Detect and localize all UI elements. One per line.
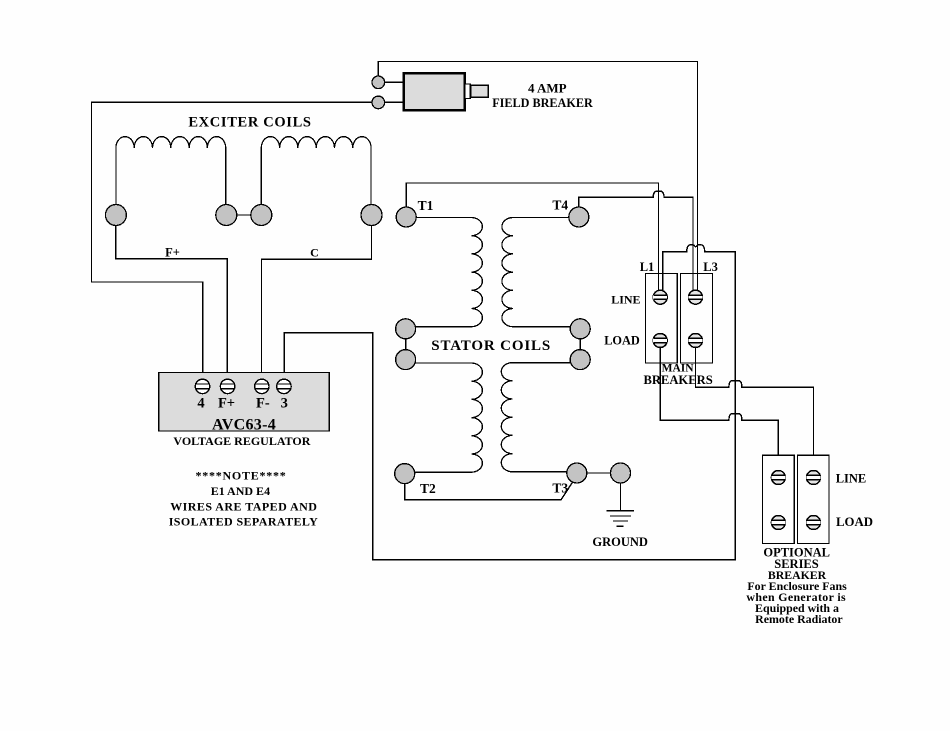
svg-text:C: C (310, 245, 319, 259)
label C (310, 245, 319, 259)
4 amp field breaker body (404, 73, 465, 110)
field breaker upper terminal (372, 76, 385, 89)
optional breaker line-left terminal (771, 471, 785, 485)
svg-text:F-: F- (256, 395, 270, 411)
field breaker connector stub (465, 84, 471, 99)
wire pair into L3 line terminal (693, 274, 698, 291)
label 4 AMP FIELD BREAKER (492, 80, 593, 110)
stator coil top-left (406, 218, 482, 327)
label LOAD (main) (604, 333, 640, 347)
exciter terminal 1 (105, 205, 126, 226)
stator coil bottom-right (501, 363, 579, 472)
stator mid-right lower terminal (570, 350, 590, 370)
regulator terminal 4 (195, 379, 209, 393)
regulator terminal 3 (277, 379, 291, 393)
svg-text:STATOR COILS: STATOR COILS (431, 338, 551, 354)
T1 wire (stator T1 to L1 line) (406, 183, 658, 291)
regulator terminal F- (255, 379, 269, 393)
stator mid-right upper terminal (570, 319, 590, 339)
wire T3 to ground terminal (577, 472, 621, 474)
field breaker button (471, 85, 489, 97)
svg-text:T3: T3 (552, 481, 568, 496)
optional breaker line-right terminal (807, 471, 821, 485)
svg-text:VOLTAGE REGULATOR: VOLTAGE REGULATOR (173, 434, 310, 448)
regulator terminal F+ (220, 379, 234, 393)
wire pair into L1 line terminal (659, 274, 663, 291)
main breaker right cell (681, 274, 713, 364)
main breaker L1 load terminal (653, 334, 667, 348)
wire field breaker top to L3 line terminal (378, 62, 697, 292)
svg-text:WIRES ARE TAPED AND: WIRES ARE TAPED AND (170, 499, 317, 513)
label MAIN (662, 363, 695, 375)
optional breaker caption (763, 546, 830, 583)
optional breaker load-left terminal (771, 516, 785, 530)
sense wire regulator terminal 3 to L1 line (284, 245, 735, 560)
svg-text:4: 4 (197, 395, 204, 411)
label GROUND (592, 535, 648, 549)
wire field breaker bottom to regulator terminal 4 (92, 102, 379, 380)
stator terminal T4 (569, 207, 589, 227)
wire T2 to T3 (405, 478, 574, 500)
svg-text:Remote Radiator: Remote Radiator (755, 612, 843, 626)
label BREAKERS (643, 373, 712, 387)
L1 load wire to optional breaker (660, 346, 778, 471)
L3 load wire to optional breaker (696, 346, 814, 471)
svg-text:LOAD: LOAD (604, 333, 640, 347)
svg-text:T4: T4 (552, 197, 568, 212)
optional breaker load-right terminal (807, 516, 821, 530)
ground symbol (607, 483, 635, 526)
svg-text:3: 3 (281, 395, 288, 411)
svg-text:BREAKERS: BREAKERS (643, 373, 712, 387)
wire stator mid-left pair connector (405, 329, 407, 360)
main breaker L3 line terminal (689, 290, 703, 304)
label LINE (main) (611, 292, 640, 306)
exciter coil 2 (right) (261, 137, 371, 215)
svg-text:EXCITER COILS: EXCITER COILS (188, 115, 311, 131)
voltage regulator box AVC63-4 (159, 373, 329, 431)
svg-text:T1: T1 (418, 198, 434, 213)
label STATOR COILS (431, 338, 551, 354)
wire breaker upper terminal to body (378, 81, 403, 83)
wire exciter middle connector (226, 214, 261, 216)
label AVC63-4 (212, 416, 276, 433)
stator terminal T1 (396, 207, 416, 227)
svg-text:4 AMP: 4 AMP (528, 80, 567, 95)
main breaker L3 load terminal (689, 334, 703, 348)
stator terminal T2 (395, 464, 415, 484)
svg-text:LOAD: LOAD (836, 515, 873, 529)
label VOLTAGE REGULATOR (173, 434, 310, 448)
field breaker lower terminal (372, 96, 385, 109)
svg-text:GROUND: GROUND (592, 535, 648, 549)
svg-text:LINE: LINE (611, 292, 640, 306)
label L1 (640, 260, 655, 274)
exciter terminal 3 (251, 205, 272, 226)
stator mid-left upper terminal (396, 319, 416, 339)
svg-text:L1: L1 (640, 260, 655, 274)
label F+ (165, 245, 180, 259)
label T4 (552, 197, 568, 212)
label T3 (552, 481, 568, 496)
stator coil top-right (502, 218, 580, 327)
svg-text:****NOTE****: ****NOTE**** (195, 468, 286, 482)
label LOAD (optional) (836, 515, 873, 529)
optional breaker note (746, 579, 847, 626)
exciter coil 1 (left) (116, 137, 226, 215)
note text block (169, 468, 319, 528)
svg-text:F+: F+ (165, 245, 180, 259)
svg-text:L3: L3 (703, 260, 718, 274)
label T2 (420, 481, 436, 496)
svg-text:AVC63-4: AVC63-4 (212, 416, 276, 433)
F+ wire (exciter to regulator F+) (116, 215, 227, 380)
label L3 (703, 260, 718, 274)
svg-text:T2: T2 (420, 481, 436, 496)
optional breaker right cell (798, 455, 830, 543)
svg-text:E1 AND E4: E1 AND E4 (211, 484, 270, 498)
stator terminal T3 (567, 463, 587, 483)
label T1 (418, 198, 434, 213)
wire stator mid-right pair connector (579, 329, 581, 360)
label LINE (optional) (836, 472, 867, 486)
regulator terminal labels (197, 395, 288, 411)
stator coil bottom-left (405, 363, 482, 472)
svg-text:FIELD BREAKER: FIELD BREAKER (492, 96, 593, 110)
exciter terminal 4 (361, 205, 382, 226)
optional breaker left cell (762, 455, 794, 543)
wire breaker lower terminal to body (378, 101, 403, 103)
label EXCITER COILS (188, 115, 311, 131)
ground terminal (611, 463, 631, 483)
stator mid-left lower terminal (396, 350, 416, 370)
exciter terminal 2 (216, 205, 237, 226)
main breaker left cell (646, 274, 678, 364)
main breaker L1 line terminal (653, 290, 667, 304)
C wire (exciter to regulator F-) (262, 215, 372, 380)
svg-text:F+: F+ (218, 395, 235, 411)
T4 wire (stator T4 to L3 line, hump over T1 wire) (579, 191, 693, 291)
svg-text:LINE: LINE (836, 472, 867, 486)
svg-text:ISOLATED SEPARATELY: ISOLATED SEPARATELY (169, 515, 319, 529)
